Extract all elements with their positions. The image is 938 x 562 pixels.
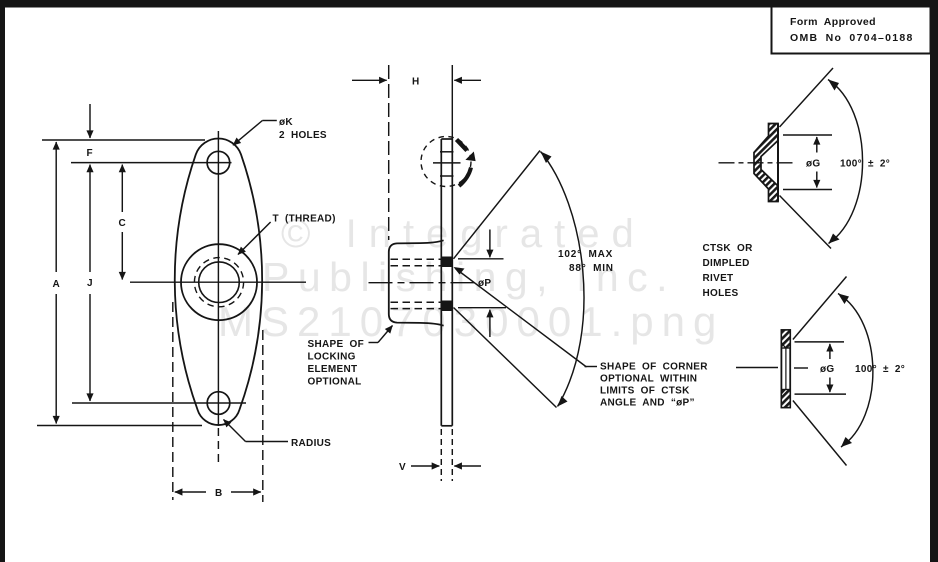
svg-text:A: A (53, 279, 61, 290)
dimple right face (777, 124, 779, 202)
svg-text:LOCKING: LOCKING (308, 352, 356, 363)
side view centerline (369, 282, 477, 284)
svg-text:SHAPE OF CORNER: SHAPE OF CORNER (600, 362, 708, 373)
label shape of corner block (600, 362, 708, 409)
svg-text:HOLES: HOLES (703, 288, 739, 299)
svg-text:RIVET: RIVET (703, 273, 734, 284)
leader shape of locking (369, 326, 393, 343)
svg-text:88° MIN: 88° MIN (569, 263, 614, 274)
svg-text:T (THREAD): T (THREAD) (273, 214, 336, 225)
svg-text:SHAPE OF: SHAPE OF (308, 339, 365, 350)
ctsk angle upper ray (454, 151, 541, 259)
circle A heavy arrow strokes (457, 140, 476, 187)
dimple figure band (754, 124, 778, 202)
thread hole outer circle (181, 244, 257, 320)
ctsk arc arrowhead top (838, 294, 849, 305)
front view vertical centerline (217, 131, 219, 462)
dimension B extension lines (173, 302, 263, 502)
svg-text:F: F (87, 148, 93, 159)
hole edge block bottom (441, 301, 452, 312)
H extension lines (389, 65, 453, 240)
nut body side view (389, 240, 444, 325)
svg-text:100° ± 2°: 100° ± 2° (840, 159, 890, 170)
arc arrowhead bottom (558, 396, 568, 407)
label shape of locking element optional (308, 339, 365, 388)
dimension F (89, 104, 91, 138)
dimension A (55, 142, 57, 424)
ctsk angle upper ray (793, 277, 847, 340)
svg-text:RADIUS: RADIUS (291, 438, 331, 449)
svg-text:LIMITS OF CTSK: LIMITS OF CTSK (600, 386, 690, 397)
ctsk arc arrowhead bottom (841, 437, 852, 447)
svg-text:OPTIONAL WITHIN: OPTIONAL WITHIN (600, 374, 697, 385)
svg-text:OPTIONAL: OPTIONAL (308, 377, 362, 388)
ctsk angle lower ray (454, 308, 557, 408)
ctsk figure plate (781, 330, 790, 408)
dimple arc arrowhead bottom (829, 234, 840, 244)
side view rivet hole ticks (433, 152, 461, 176)
svg-text:øK: øK (279, 117, 293, 128)
leader phi-K (233, 121, 277, 146)
dimension C (121, 165, 123, 280)
label ctsk or dimpled rivet holes (703, 243, 754, 299)
svg-text:102° MAX: 102° MAX (558, 249, 613, 260)
svg-text:J: J (87, 278, 93, 289)
border left band (0, 0, 5, 562)
arc arrowhead top (541, 152, 552, 164)
form approved box (772, 7, 931, 54)
dimple angle arc (828, 80, 863, 244)
svg-text:ELEMENT: ELEMENT (308, 364, 358, 375)
dimension B (175, 491, 261, 493)
leader shape of corner (456, 269, 598, 368)
rivet hole bottom (72, 392, 246, 415)
dimension J (89, 165, 91, 401)
dimple phi-G extension lines (783, 135, 832, 190)
extension line plate top (42, 139, 205, 141)
ctsk centerline / leader (736, 367, 808, 370)
dimple angle upper ray (780, 68, 834, 127)
thread inner circle (199, 262, 240, 303)
phi-P extension lines (458, 259, 506, 308)
dimple arc arrowhead top (828, 80, 839, 91)
svg-text:OMB No 0704–0188: OMB No 0704–0188 (790, 32, 914, 44)
leader arrowhead at hole corner (454, 267, 465, 275)
dimple centerline (719, 162, 797, 164)
leader T thread (238, 222, 271, 255)
svg-text:ANGLE AND “øP”: ANGLE AND “øP” (600, 398, 695, 409)
thread hidden dashed lines (391, 259, 442, 308)
ctsk angle arc (838, 294, 873, 448)
ctsk dimension phi-G (829, 344, 831, 392)
svg-text:CTSK OR: CTSK OR (703, 243, 754, 254)
svg-text:V: V (399, 462, 406, 473)
leader RADIUS (224, 420, 289, 442)
border top band (0, 0, 938, 8)
svg-text:C: C (119, 218, 127, 229)
thread dashed circle (194, 258, 243, 307)
border right band (930, 0, 938, 562)
ctsk angle arc (541, 152, 584, 407)
svg-text:100° ± 2°: 100° ± 2° (855, 364, 905, 375)
ctsk angle lower ray (793, 401, 847, 466)
dimple dimension phi-G (816, 137, 818, 188)
extension line plate bottom (37, 425, 202, 427)
center hole horizontal centerline (130, 281, 306, 283)
dimension phi-P (489, 230, 491, 338)
dimension H (352, 79, 481, 81)
svg-text:øG: øG (820, 364, 835, 375)
V extension lines (441, 429, 452, 481)
front view plate outline (175, 138, 262, 425)
dimension V (411, 465, 481, 467)
dimple angle lower ray (780, 196, 832, 249)
svg-text:2 HOLES: 2 HOLES (279, 130, 327, 141)
rivet hole top (71, 151, 232, 174)
svg-text:Publishing, Inc.: Publishing, Inc. (262, 254, 676, 300)
svg-text:H: H (412, 77, 420, 88)
svg-text:øG: øG (806, 159, 821, 170)
hole edge block top (441, 257, 452, 268)
svg-text:DIMPLED: DIMPLED (703, 258, 750, 269)
ctsk phi-G extension lines (795, 342, 847, 394)
svg-text:B: B (215, 488, 223, 499)
side view plate strip (441, 139, 452, 426)
side view dashed circle A (421, 137, 471, 187)
svg-text:Form Approved: Form Approved (790, 16, 876, 28)
svg-text:MS2107030001.png: MS2107030001.png (218, 298, 724, 345)
